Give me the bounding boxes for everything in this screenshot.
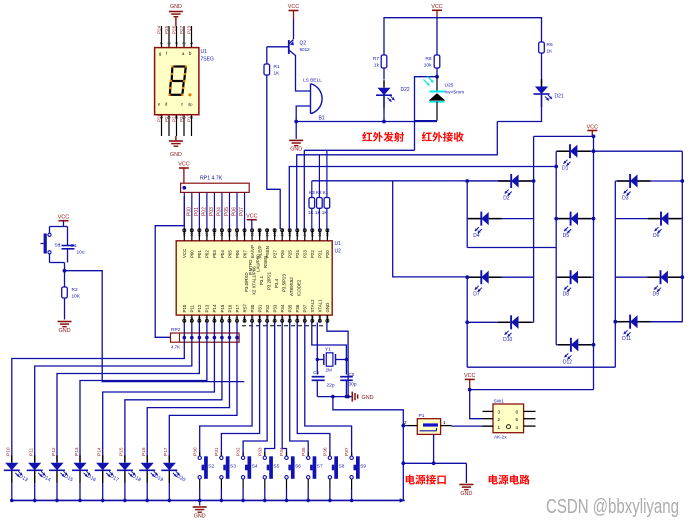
wire RP1 pin 3 to MCU (198, 192, 200, 229)
svg-text:7: 7 (228, 317, 232, 319)
wire Q2 base to R1 (267, 46, 289, 48)
LED D16 (79, 455, 81, 463)
wire D6 row (615, 218, 661, 220)
wire D10 row (467, 321, 511, 323)
wire matrix column c6 (639, 151, 683, 322)
P1 pin 3 stub to GND line (433, 434, 435, 463)
svg-text:P24: P24 (156, 25, 161, 34)
MCU bottom pin 8 stub (236, 315, 238, 322)
svg-text:VCC: VCC (58, 215, 69, 221)
svg-text:P34: P34 (279, 447, 285, 456)
MCU top pin 34 stub (228, 229, 230, 241)
svg-text:P04: P04 (220, 250, 225, 258)
svg-text:P37: P37 (344, 447, 350, 456)
svg-text:P06: P06 (232, 207, 238, 216)
svg-text:P3.5/P23: P3.5/P23 (282, 273, 287, 292)
svg-text:40: 40 (183, 232, 187, 236)
svg-text:GND: GND (325, 303, 330, 313)
svg-text:37: 37 (205, 232, 209, 236)
svg-text:32: 32 (243, 232, 247, 236)
7-seg bottom pin wire 10 (161, 115, 163, 136)
LED D22 (IR emitter) (383, 80, 385, 88)
svg-text:P27: P27 (179, 25, 184, 34)
switch S9 (351, 452, 353, 456)
wire R6 to D21 (541, 53, 543, 87)
svg-text:26: 26 (288, 232, 292, 236)
svg-text:D22: D22 (401, 87, 410, 93)
svg-text:28: 28 (273, 232, 277, 236)
wire R2 to GND (64, 298, 66, 320)
svg-text:P31: P31 (257, 304, 262, 312)
svg-text:K3 K2 K1: K3 K2 K1 (309, 190, 329, 195)
LED D8 (558, 276, 571, 278)
LED D20 (168, 455, 170, 463)
svg-text:C5: C5 (349, 372, 355, 377)
svg-text:P02: P02 (201, 207, 207, 216)
svg-text:Q2: Q2 (300, 41, 307, 47)
wire matrix column c4 (593, 136, 595, 389)
wire IR ground rail (296, 121, 437, 123)
MCU top pin 28 stub (274, 229, 276, 241)
wire MCU P15 to LED D18 (125, 323, 222, 462)
7-seg top pin wire 1 (191, 26, 193, 48)
wire K1 bottom to pin (311, 208, 313, 229)
wire S7 to ground rail (307, 479, 309, 489)
switch S1 (reset button) (49, 227, 51, 234)
svg-text:R2: R2 (72, 287, 78, 293)
node VCC power junction (468, 388, 472, 392)
MCU bottom pin 20 stub (326, 315, 328, 322)
svg-text:P37: P37 (303, 304, 308, 312)
wire D15 to ground rail (56, 483, 58, 500)
MCU top pin 22 stub (319, 229, 321, 241)
MCU top pin 36 stub (213, 229, 215, 241)
svg-text:10k: 10k (424, 63, 432, 69)
svg-text:S6: S6 (295, 463, 301, 469)
node buzzer ground junction (294, 120, 298, 124)
svg-text:D1: D1 (562, 166, 569, 172)
MCU top pin 39 stub (191, 229, 193, 241)
svg-text:B1: B1 (319, 116, 325, 122)
wire MCU P34 to S6 (282, 323, 286, 457)
svg-text:8: 8 (235, 317, 239, 319)
svg-text:17: 17 (303, 315, 307, 319)
svg-text:CSDN @bbxyliyang: CSDN @bbxyliyang (546, 495, 679, 518)
7-seg bottom pin wire 8 (176, 115, 178, 136)
wire RP1 pin 9 to MCU (244, 192, 246, 229)
svg-text:P13: P13 (74, 447, 80, 456)
resistor R6 1K (539, 42, 545, 53)
svg-text:4: 4 (205, 317, 209, 319)
LED D4 (468, 218, 481, 220)
svg-text:34: 34 (228, 232, 232, 236)
MCU bottom pin 4 stub (206, 315, 208, 322)
MCU bottom pin 2 stub (191, 315, 193, 322)
svg-text:15: 15 (288, 315, 292, 319)
capacitor C1 10u (electrolytic) (67, 227, 69, 246)
MCU top pin 38 stub (198, 229, 200, 241)
svg-text:AT89S52: AT89S52 (289, 277, 294, 296)
svg-text:12: 12 (265, 315, 269, 319)
svg-text:10: 10 (250, 315, 254, 319)
svg-text:2: 2 (190, 317, 194, 319)
svg-text:LAU/P80: LAU/P80 (256, 254, 261, 272)
svg-text:1K: 1K (274, 71, 281, 77)
svg-text:3: 3 (198, 317, 202, 319)
node matrix VCC (592, 135, 596, 139)
svg-text:P32: P32 (265, 304, 270, 312)
7-seg top pin wire 6 (168, 26, 170, 48)
wire buzzer to GND junction (296, 106, 310, 122)
svg-text:D12: D12 (563, 359, 572, 365)
LED D9 (648, 276, 661, 278)
wire S5 to ground rail (264, 479, 266, 489)
svg-text:P30: P30 (250, 304, 255, 312)
svg-text:13: 13 (273, 315, 277, 319)
switch S7 (307, 452, 309, 456)
svg-text:Y1: Y1 (325, 347, 331, 353)
LED D1 (557, 150, 570, 152)
svg-text:XTAL1: XTAL1 (318, 299, 323, 313)
svg-text:D6: D6 (653, 233, 660, 239)
LED D10 (498, 321, 511, 323)
label 红外接收 (422, 132, 432, 142)
svg-text:P23: P23 (186, 25, 191, 34)
svg-text:dp: dp (188, 102, 193, 107)
LED D18 (124, 455, 126, 463)
svg-text:R8: R8 (425, 56, 431, 62)
wire matrix column c1 upper (466, 181, 468, 248)
wire MCU P32 to S4 (243, 323, 267, 457)
ground GND (reset) (58, 321, 72, 323)
svg-text:P35: P35 (288, 304, 293, 312)
wire D18 to ground rail (124, 483, 126, 500)
wire RP1 pin 4 to MCU (206, 192, 208, 229)
svg-text:P30: P30 (192, 447, 198, 456)
wire reset node to RST line (65, 271, 245, 382)
wire D4 row (467, 218, 481, 220)
svg-text:R7: R7 (373, 56, 379, 62)
wire c4 to VCC2 node (470, 389, 594, 391)
svg-text:P26: P26 (171, 25, 176, 34)
svg-text:P17: P17 (163, 447, 169, 456)
svg-text:VCC: VCC (182, 249, 187, 258)
node LED rail junction (55, 499, 59, 503)
resistor R7 1k (IR emitter) (381, 55, 387, 68)
node button rail junction (241, 499, 245, 503)
svg-text:GND: GND (362, 395, 374, 401)
svg-text:GND: GND (170, 4, 182, 10)
svg-text:P26: P26 (280, 250, 285, 258)
wire matrix column c1 lower (466, 277, 468, 367)
node RP2 pin 8 (228, 336, 232, 340)
svg-text:P16: P16 (227, 304, 232, 312)
wire MCU P13 to LED D16 (80, 323, 207, 462)
MCU top pin 24 stub (304, 229, 306, 241)
svg-text:D10: D10 (503, 337, 512, 343)
svg-text:GND: GND (290, 147, 302, 153)
wire MCU P37 to S9 (305, 323, 352, 457)
node button rail junction (328, 499, 332, 503)
svg-text:P21: P21 (318, 250, 323, 258)
svg-text:GND: GND (170, 152, 182, 158)
7-seg top pin wire 7 (161, 26, 163, 48)
svg-text:hw>5mm: hw>5mm (445, 90, 465, 96)
svg-text:20: 20 (326, 315, 330, 319)
node button rail junction (263, 499, 267, 503)
transistor Q2 9012 (PNP) (288, 40, 290, 54)
LED D14 (34, 455, 36, 463)
svg-text:27: 27 (280, 232, 284, 236)
wire RP1 common to RP2 common (155, 196, 184, 337)
svg-text:23: 23 (311, 232, 315, 236)
svg-text:6: 6 (516, 410, 519, 415)
LED D3 (617, 180, 630, 182)
wire MCU P14 to LED D17 (103, 323, 215, 462)
wire matrix column c2 (533, 136, 535, 322)
svg-text:11: 11 (258, 315, 262, 319)
wire RP1 pin 5 to MCU (213, 192, 215, 229)
MCU top pin 25 stub (296, 229, 298, 241)
wire RP1 pin 2 to MCU (191, 192, 193, 229)
svg-text:P24: P24 (295, 250, 300, 258)
svg-text:P00: P00 (190, 250, 195, 258)
microcontroller U2 body (176, 241, 332, 315)
MCU bottom pin 9 stub (244, 315, 246, 322)
svg-text:9012: 9012 (300, 47, 311, 52)
svg-text:30p: 30p (349, 382, 357, 388)
label 电源接口 (406, 475, 415, 485)
P1 pin 1 stub (441, 425, 452, 427)
svg-text:R1: R1 (274, 64, 280, 70)
svg-text:2: 2 (498, 417, 501, 422)
wire RP1 pin 6 to MCU (221, 192, 223, 229)
svg-text:S7: S7 (317, 463, 323, 469)
svg-text:S9: S9 (360, 463, 366, 469)
switch S4 (242, 452, 244, 456)
node net3 at matrix column (554, 165, 558, 169)
svg-text:10K: 10K (72, 294, 81, 300)
svg-text:P22: P22 (310, 250, 315, 258)
wire P1 pin3 GND line (403, 462, 466, 464)
svg-text:C4: C4 (313, 370, 319, 375)
7-seg segment corner marks (171, 65, 173, 67)
IR receive arrows (424, 80, 430, 86)
switch S6 (286, 452, 288, 456)
svg-text:D3: D3 (622, 196, 629, 202)
7-seg bottom pin wire 5 (183, 115, 185, 136)
svg-text:1K 1K 1K: 1K 1K 1K (308, 210, 328, 215)
svg-text:22: 22 (318, 232, 322, 236)
switch S2 (199, 452, 201, 456)
wire Q2 collector to buzzer (296, 55, 311, 91)
svg-text:P15: P15 (119, 447, 125, 456)
MCU bottom pin 12 stub (266, 315, 268, 322)
wire IR receiver line to MCU (net 1) (304, 149, 414, 151)
svg-text:29: 29 (265, 232, 269, 236)
LED D13 (11, 455, 13, 463)
wire S6 to ground rail (286, 479, 288, 489)
svg-text:GND: GND (194, 513, 206, 519)
svg-text:P32: P32 (236, 447, 242, 456)
wire D17 to ground rail (102, 483, 104, 500)
wire D5 row (556, 218, 570, 220)
switch S8 (329, 452, 331, 456)
node IR receiver output (435, 75, 439, 79)
wire phototransistor emitter to rail (415, 120, 438, 122)
svg-text:P3.4: P3.4 (274, 278, 279, 288)
svg-text:33: 33 (235, 232, 239, 236)
LED D12 (558, 344, 571, 346)
svg-text:P1: P1 (419, 413, 425, 419)
svg-text:P13: P13 (205, 304, 210, 312)
LED D15 (56, 455, 58, 463)
svg-text:VCC: VCC (288, 4, 299, 10)
wire D12 row (556, 344, 571, 346)
node button rail junction (285, 499, 289, 503)
LED D17 (102, 455, 104, 463)
svg-text:RSEN: RSEN (263, 256, 268, 268)
wire GND to 7-seg pin 3 (175, 17, 177, 26)
LED D2 (498, 180, 511, 182)
wire matrix column c3 (555, 151, 557, 345)
wire matrix cross link row (467, 247, 556, 249)
svg-text:P07: P07 (242, 250, 247, 258)
wire S4 to ground rail (242, 479, 244, 489)
node LED rail junction (168, 499, 172, 503)
wire bottom ground rail (12, 499, 405, 501)
svg-text:19: 19 (318, 315, 322, 319)
wire D9 row (615, 276, 660, 278)
svg-text:P05: P05 (227, 250, 232, 258)
node button rail junction (198, 499, 202, 503)
wire D8 row (556, 276, 570, 278)
wire RP1 pin 8 to MCU (236, 192, 238, 229)
svg-text:6: 6 (220, 317, 224, 319)
node IR emitter rail junction (382, 120, 386, 124)
MCU top pin 35 stub (221, 229, 223, 241)
svg-text:38: 38 (198, 232, 202, 236)
svg-text:31: 31 (250, 232, 254, 236)
wire VCC rail (IR) (384, 18, 542, 55)
wire XTAL1 to crystal right (312, 323, 347, 375)
wire S9 to ground rail (351, 479, 353, 489)
svg-text:EA/VP: EA/VP (250, 245, 255, 258)
svg-text:25: 25 (295, 232, 299, 236)
svg-text:D4: D4 (473, 233, 480, 239)
svg-text:3: 3 (498, 410, 501, 415)
svg-text:VCC: VCC (178, 162, 189, 168)
MCU bottom pin 13 stub (274, 315, 276, 322)
svg-text:P12: P12 (197, 304, 202, 312)
svg-text:S5: S5 (273, 463, 279, 469)
node LED rail junction (101, 499, 105, 503)
node RP2 pin 9 (235, 336, 239, 340)
svg-text:D11: D11 (622, 336, 631, 342)
MCU top pin 29 stub (266, 229, 268, 241)
wire D11 row (615, 321, 630, 323)
wire matrix row line (net 4) (312, 180, 534, 182)
wire D19 to ground rail (146, 483, 148, 500)
LED D6 (648, 218, 661, 220)
svg-text:4: 4 (516, 425, 519, 430)
MCU top pin 27 stub (281, 229, 283, 241)
svg-text:P01: P01 (197, 250, 202, 258)
node crystal ground junctions (331, 395, 335, 399)
svg-text:D2: D2 (503, 196, 510, 202)
SW1 left pin stubs (483, 410, 494, 412)
svg-text:1K: 1K (547, 49, 554, 55)
svg-text:P14: P14 (212, 304, 217, 312)
svg-text:S8: S8 (339, 463, 345, 469)
resistor R1 1K (266, 47, 268, 64)
svg-text:+: + (57, 242, 60, 248)
wire D1 row (556, 150, 570, 152)
resistor network RP1 (181, 183, 250, 192)
wire MCU P33 to S5 (265, 323, 275, 457)
svg-text:22p: 22p (327, 383, 335, 389)
svg-text:P23: P23 (303, 250, 308, 258)
svg-text:P10: P10 (6, 447, 12, 456)
MCU top pin 21 stub (326, 229, 328, 241)
wire D14 to ground rail (34, 483, 36, 500)
wire to power GND (465, 463, 467, 483)
wire matrix bottom link to c5 (467, 366, 615, 368)
wire MCU P36 to S8 (297, 323, 330, 457)
wire MCU P17 to LED D20 (169, 323, 237, 462)
wire matrix column c5 (614, 181, 616, 367)
wire D3 row (615, 180, 630, 182)
svg-text:P36: P36 (295, 304, 300, 312)
svg-text:P16: P16 (141, 447, 147, 456)
svg-text:P15: P15 (220, 304, 225, 312)
wire net4 branch to D7 row (393, 181, 468, 277)
wire D21 to P2 line riser (497, 94, 541, 122)
svg-text:U2: U2 (335, 249, 342, 255)
resistor R2 10K (64, 271, 66, 287)
svg-text:RST: RST (242, 303, 247, 312)
MCU top pin 23 stub (311, 229, 313, 241)
svg-text:P01: P01 (194, 207, 200, 216)
svg-text:P34: P34 (280, 304, 285, 312)
node RP2 pin 3 (190, 336, 194, 340)
svg-text:36: 36 (213, 232, 217, 236)
resistor R8 10k (IR receiver) (434, 55, 440, 68)
wire S3 to ground rail (220, 479, 222, 489)
svg-text:LS BELL: LS BELL (303, 78, 322, 84)
svg-text:P25: P25 (288, 250, 293, 258)
svg-text:1: 1 (183, 317, 187, 319)
svg-text:P20: P20 (325, 250, 330, 258)
wire VCC to reset node (63, 221, 65, 227)
wire VCC matrix top rail (534, 135, 594, 137)
node button rail junction (220, 499, 224, 503)
resistor K2 1K (318, 155, 320, 198)
svg-text:P31: P31 (214, 447, 220, 456)
svg-text:AK-2x: AK-2x (494, 435, 507, 440)
svg-text:c: c (181, 102, 183, 107)
svg-text:U1: U1 (335, 241, 342, 247)
MCU bottom pin 18 stub (311, 315, 313, 322)
svg-text:9: 9 (243, 317, 247, 319)
svg-text:XTAL2: XTAL2 (310, 299, 315, 313)
wire XTAL2 to crystal (316, 323, 318, 375)
7-seg decimal point (188, 93, 191, 96)
svg-text:24: 24 (303, 232, 307, 236)
label 红外发射 (362, 132, 372, 142)
LED D7 (468, 276, 481, 278)
node P1 pin2 junction (401, 424, 405, 428)
